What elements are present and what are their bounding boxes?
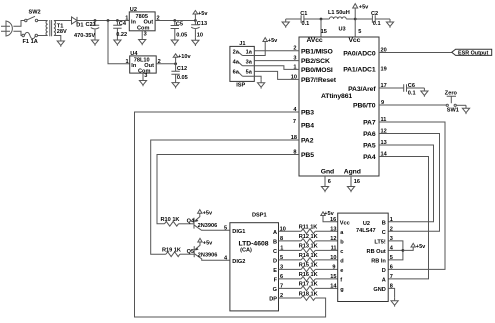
node C21 junction <box>94 19 97 22</box>
svg-text:14: 14 <box>330 284 337 290</box>
switch SW1 Zero <box>445 91 459 114</box>
svg-text:C5: C5 <box>176 22 183 28</box>
resistor R15 1K <box>299 263 318 272</box>
svg-text:15: 15 <box>321 29 327 35</box>
wire rectified rail <box>77 20 129 22</box>
svg-text:16: 16 <box>354 179 360 185</box>
svg-text:D: D <box>382 268 386 274</box>
svg-text:R13 1K: R13 1K <box>299 244 318 250</box>
svg-text:6: 6 <box>390 265 393 271</box>
svg-text:ATtiny861: ATtiny861 <box>321 93 352 100</box>
transistor Q5 2N3906 <box>187 242 230 260</box>
svg-text:R14 1K: R14 1K <box>299 253 318 259</box>
svg-text:U2: U2 <box>363 221 370 227</box>
svg-text:15: 15 <box>330 274 336 280</box>
display DSP1 LTD-4608 <box>230 213 279 311</box>
wire segment G row <box>279 287 338 289</box>
diode D1 <box>72 17 84 29</box>
svg-text:D: D <box>273 258 277 264</box>
svg-text:2: 2 <box>157 16 160 22</box>
svg-text:f: f <box>340 278 342 284</box>
svg-text:+5v: +5v <box>416 244 426 250</box>
svg-text:3a: 3a <box>246 60 253 66</box>
svg-text:7: 7 <box>293 119 296 125</box>
svg-text:2: 2 <box>158 59 161 65</box>
svg-text:PA5: PA5 <box>363 143 376 150</box>
switch SW2 <box>25 10 41 22</box>
svg-text:PB5: PB5 <box>301 152 314 159</box>
wire segment F row <box>279 278 338 280</box>
pin 16 Agnd stub <box>350 176 352 184</box>
power +10v <box>173 54 191 64</box>
svg-text:+5v: +5v <box>359 5 369 11</box>
wire PB3 pin 4 to DP net (bottom loop) <box>135 112 326 317</box>
wire L1 to Vcc node <box>346 18 372 20</box>
fuse F1 1A <box>22 32 38 44</box>
connector J1 ISP <box>230 41 254 89</box>
wire pin 9 to SW1 <box>379 104 446 106</box>
svg-text:Gnd: Gnd <box>321 168 334 175</box>
ground (C5) <box>171 37 178 46</box>
wire PA5 pin 13 to U5 B <box>379 145 434 222</box>
svg-text:SW1: SW1 <box>447 107 459 113</box>
svg-text:+5v: +5v <box>324 211 334 217</box>
ground (C4) <box>114 37 121 46</box>
svg-text:R17 1K: R17 1K <box>299 282 318 288</box>
svg-text:7: 7 <box>390 274 393 280</box>
svg-text:DSP1: DSP1 <box>252 213 267 219</box>
svg-text:0.05: 0.05 <box>176 33 187 39</box>
svg-text:28V: 28V <box>57 29 67 35</box>
svg-text:d: d <box>340 259 344 265</box>
ground (C13) <box>192 37 199 46</box>
node 78L10 branch <box>107 19 110 22</box>
svg-text:AVcc: AVcc <box>307 37 323 44</box>
svg-text:F: F <box>274 277 278 283</box>
wire U4 out <box>156 63 175 65</box>
svg-text:A: A <box>382 278 386 284</box>
wire segment DP row <box>279 297 302 299</box>
svg-text:R15 1K: R15 1K <box>299 263 318 269</box>
wire LT RBO RBI bracket <box>388 241 403 260</box>
svg-text:SW2: SW2 <box>29 10 41 16</box>
svg-text:PA1/ADC1: PA1/ADC1 <box>343 67 376 74</box>
capacitor C4 0.22 <box>113 21 127 39</box>
op-amp U5 74LS47 <box>338 213 389 301</box>
power +5v (Q4) <box>198 210 213 217</box>
svg-text:LTD-4608: LTD-4608 <box>238 241 268 248</box>
svg-text:R11 1K: R11 1K <box>299 225 318 231</box>
svg-text:Vcc: Vcc <box>340 220 350 226</box>
svg-text:U4: U4 <box>130 51 138 57</box>
svg-text:DIG2: DIG2 <box>232 259 245 265</box>
wire segment D row <box>279 259 338 261</box>
node ESR Output tag <box>452 49 492 57</box>
svg-text:11: 11 <box>331 246 337 252</box>
svg-text:e: e <box>340 268 343 274</box>
ground (U2 Com) <box>139 37 146 46</box>
wire C1 to AVcc node <box>304 18 330 20</box>
wire to 78L10 input <box>108 21 130 64</box>
svg-text:DP: DP <box>269 296 277 302</box>
svg-text:PA7: PA7 <box>363 120 376 127</box>
svg-text:0.1: 0.1 <box>373 21 381 27</box>
resistor R13 1K <box>299 244 318 253</box>
svg-text:0.05: 0.05 <box>177 75 188 81</box>
wire PA6 pin 12 to U5 C <box>379 134 440 232</box>
svg-text:16: 16 <box>330 217 336 223</box>
wire segment E row <box>279 268 338 270</box>
svg-text:PA6: PA6 <box>363 131 376 138</box>
right pin numbers U3 <box>381 48 388 158</box>
svg-text:E: E <box>273 268 277 274</box>
svg-text:10: 10 <box>197 32 203 38</box>
svg-text:B: B <box>382 220 386 226</box>
wire PB5 pin 8 to R10 <box>157 155 299 224</box>
wire J1 pin 2a to +5v <box>242 42 265 56</box>
capacitor C2 0.1 <box>371 11 381 27</box>
node C5 junction <box>173 19 176 22</box>
op-amp U3 ATtiny861 <box>299 26 379 176</box>
ground (C6) <box>421 88 428 97</box>
wire pin5 drop <box>354 19 356 37</box>
ground (U4 Com) <box>139 78 146 87</box>
wire C2 to ground <box>375 18 390 20</box>
svg-text:5a: 5a <box>246 70 253 76</box>
node C12 junction <box>174 62 177 65</box>
power +5v (J1) <box>263 38 278 45</box>
svg-text:19: 19 <box>381 67 387 73</box>
ground (U5 GND) <box>391 298 398 307</box>
svg-text:C4: C4 <box>119 21 127 27</box>
svg-text:+5v: +5v <box>268 38 278 44</box>
wire plug to switch and fuse <box>13 21 24 36</box>
svg-text:1a: 1a <box>246 50 253 56</box>
svg-text:R18 1K: R18 1K <box>299 291 318 297</box>
svg-text:0.1: 0.1 <box>408 91 416 97</box>
ground (C2) <box>386 19 393 28</box>
svg-text:10: 10 <box>330 255 336 261</box>
wire J1 3a SCK to pin 3 <box>254 60 299 62</box>
svg-text:R10 1K: R10 1K <box>161 217 180 223</box>
svg-text:1: 1 <box>126 59 129 65</box>
svg-text:L1 50uH: L1 50uH <box>328 10 350 16</box>
svg-text:c: c <box>340 249 343 255</box>
svg-text:In: In <box>131 19 137 25</box>
svg-text:(CA): (CA) <box>240 248 252 254</box>
svg-text:74LS47: 74LS47 <box>356 228 376 234</box>
resistor R11 1K <box>299 225 318 234</box>
pin 3 stub U2 to ground <box>141 31 143 37</box>
svg-text:2N3906: 2N3906 <box>198 223 218 229</box>
svg-text:U2: U2 <box>130 7 137 13</box>
svg-text:PB0/MOSI: PB0/MOSI <box>301 67 333 74</box>
node bracket junction <box>402 249 405 252</box>
svg-text:DIG1: DIG1 <box>232 229 245 235</box>
svg-text:9: 9 <box>332 265 335 271</box>
svg-text:PA0/ADC0: PA0/ADC0 <box>343 50 376 57</box>
power +5v (C13 node) <box>193 11 208 21</box>
svg-text:3: 3 <box>144 73 147 79</box>
op-amp U2 regulator 7805 <box>129 7 155 32</box>
resistor R17 1K <box>299 282 318 291</box>
svg-text:3: 3 <box>144 32 147 38</box>
resistor R14 1K <box>299 253 318 262</box>
wire switch to transformer primary <box>38 20 48 22</box>
svg-text:F1 1A: F1 1A <box>23 39 38 45</box>
svg-text:C: C <box>382 230 386 236</box>
svg-text:U3: U3 <box>339 26 346 32</box>
svg-text:C: C <box>273 249 277 255</box>
wire U2 out +5V rail <box>155 20 195 22</box>
svg-text:5: 5 <box>224 226 227 232</box>
wire J1 4a MOSI to pin 1 <box>242 66 299 70</box>
svg-text:R12 1K: R12 1K <box>299 234 318 240</box>
ground (J1) <box>258 80 265 89</box>
wire segment C row <box>279 249 338 251</box>
capacitor C21 470-35V <box>74 21 99 40</box>
inductor L1 50uH <box>328 10 350 19</box>
ground (SW1) <box>462 105 469 114</box>
power +5v (U5 Vcc) <box>321 211 338 222</box>
pin 6 Gnd stub <box>324 176 326 184</box>
capacitor C5 0.05 <box>171 21 188 39</box>
svg-text:PB4: PB4 <box>301 123 314 130</box>
svg-text:+5v: +5v <box>198 11 208 17</box>
svg-text:C13: C13 <box>197 21 207 27</box>
capacitor C13 10 <box>191 21 207 39</box>
transistor Q4 2N3906 <box>187 213 230 230</box>
svg-text:PB3: PB3 <box>301 110 314 117</box>
ground (C12) <box>172 80 179 89</box>
wire bracket to +5v <box>403 247 413 250</box>
svg-text:+5v: +5v <box>203 210 213 216</box>
svg-text:5: 5 <box>358 29 361 35</box>
display segment pin numbers <box>280 227 286 300</box>
svg-text:PB6/T0: PB6/T0 <box>353 103 376 110</box>
wire secondary bottom to ground <box>54 36 61 39</box>
wire J1 6a to ground <box>242 76 261 80</box>
wire segment B row <box>279 240 338 242</box>
svg-text:Vcc: Vcc <box>349 37 361 44</box>
svg-text:Q5: Q5 <box>187 249 194 255</box>
resistor R19 1K <box>162 247 194 256</box>
capacitor C12 0.05 <box>171 64 187 81</box>
svg-text:In: In <box>131 63 137 69</box>
resistor R12 1K <box>299 234 318 243</box>
svg-text:LT5!: LT5! <box>374 240 386 246</box>
svg-text:D1: D1 <box>76 22 83 28</box>
node C13 junction <box>194 19 197 22</box>
wire U5 GND pin 8 <box>388 288 394 297</box>
svg-text:2N3906: 2N3906 <box>198 253 218 259</box>
transformer T1 28V <box>46 20 67 36</box>
ground (C21) <box>91 37 98 46</box>
svg-text:12: 12 <box>330 236 336 242</box>
svg-text:Com: Com <box>137 25 149 31</box>
svg-text:2: 2 <box>390 227 393 233</box>
resistor R18 1K <box>299 291 318 300</box>
svg-text:1: 1 <box>125 16 128 22</box>
svg-text:R19 1K: R19 1K <box>162 247 181 253</box>
power +5v (Vcc node) <box>353 4 369 19</box>
svg-text:PA2: PA2 <box>301 137 314 144</box>
wire PA4 pin 14 to U5 A <box>379 157 429 279</box>
svg-text:B: B <box>273 239 277 245</box>
wire PA7 pin 11 to U5 D <box>379 122 445 269</box>
svg-text:R16 1K: R16 1K <box>299 272 318 278</box>
U5 right pin numbers <box>390 217 394 290</box>
wire SW1 to ground <box>456 104 466 106</box>
svg-text:G: G <box>273 287 277 293</box>
resistor R16 1K <box>299 272 318 281</box>
svg-text:6: 6 <box>328 179 331 185</box>
wire segment A row <box>279 230 338 232</box>
ground (U3 Gnd) <box>321 184 328 193</box>
svg-text:Agnd: Agnd <box>344 168 361 175</box>
wire ground to C1 <box>286 18 301 20</box>
wire fuse to transformer primary bottom <box>38 35 48 37</box>
wire pin15 drop <box>320 19 322 37</box>
wire J1 5a Reset to pin 10 <box>254 71 299 79</box>
node C4 junction <box>116 19 119 22</box>
svg-text:g: g <box>340 287 344 293</box>
svg-text:ISP: ISP <box>236 83 245 89</box>
ground (transformer secondary) <box>57 38 64 47</box>
ground (U3 Agnd) <box>347 184 354 193</box>
pin 3 stub U4 to ground <box>142 73 144 77</box>
resistor R10 1K <box>161 217 195 226</box>
svg-text:470-35V: 470-35V <box>74 33 95 39</box>
svg-text:+10v: +10v <box>178 54 191 60</box>
svg-text:PA3/Aref: PA3/Aref <box>348 86 376 93</box>
svg-text:1: 1 <box>390 217 393 223</box>
svg-text:+5v: +5v <box>203 241 213 247</box>
capacitor C6 0.1 <box>404 83 416 97</box>
node AVcc <box>320 18 323 21</box>
AC plug P1 <box>1 21 12 36</box>
svg-text:RB Out: RB Out <box>367 249 386 255</box>
svg-text:0.1: 0.1 <box>302 21 310 27</box>
svg-text:PB7/!Reset: PB7/!Reset <box>301 77 337 84</box>
ground (C1 left) <box>282 19 289 28</box>
capacitor C1 0.1 <box>300 11 309 27</box>
power +5v (U5 LT/RB) <box>411 243 426 250</box>
svg-text:PB2/SCK: PB2/SCK <box>301 58 330 65</box>
wire secondary top to diode <box>54 20 72 22</box>
wire pin 17 to C6 <box>379 87 404 89</box>
svg-text:RB In: RB In <box>371 259 386 265</box>
svg-text:J1: J1 <box>239 41 245 47</box>
node Vcc <box>354 18 357 21</box>
left pin numbers U3 <box>291 46 298 156</box>
svg-text:A: A <box>273 230 277 236</box>
power +5v (Q5) <box>198 238 213 246</box>
svg-text:GND: GND <box>373 287 385 293</box>
svg-text:PB1/MISO: PB1/MISO <box>301 48 333 55</box>
svg-text:Zero: Zero <box>445 91 458 97</box>
wire C6 to ground <box>407 87 425 89</box>
op-amp U4 regulator 78L10 <box>130 51 157 75</box>
wire PA2 pin 18 to R19 <box>151 140 299 254</box>
wire pin 20 to ESR Output <box>379 52 452 54</box>
wire J1 1a MISO to pin 2 <box>254 50 299 52</box>
svg-text:PA4: PA4 <box>363 154 376 161</box>
U5 left pin numbers <box>330 227 337 290</box>
svg-text:b: b <box>340 240 344 246</box>
svg-text:13: 13 <box>330 227 336 233</box>
svg-text:ESR Output: ESR Output <box>458 51 488 57</box>
